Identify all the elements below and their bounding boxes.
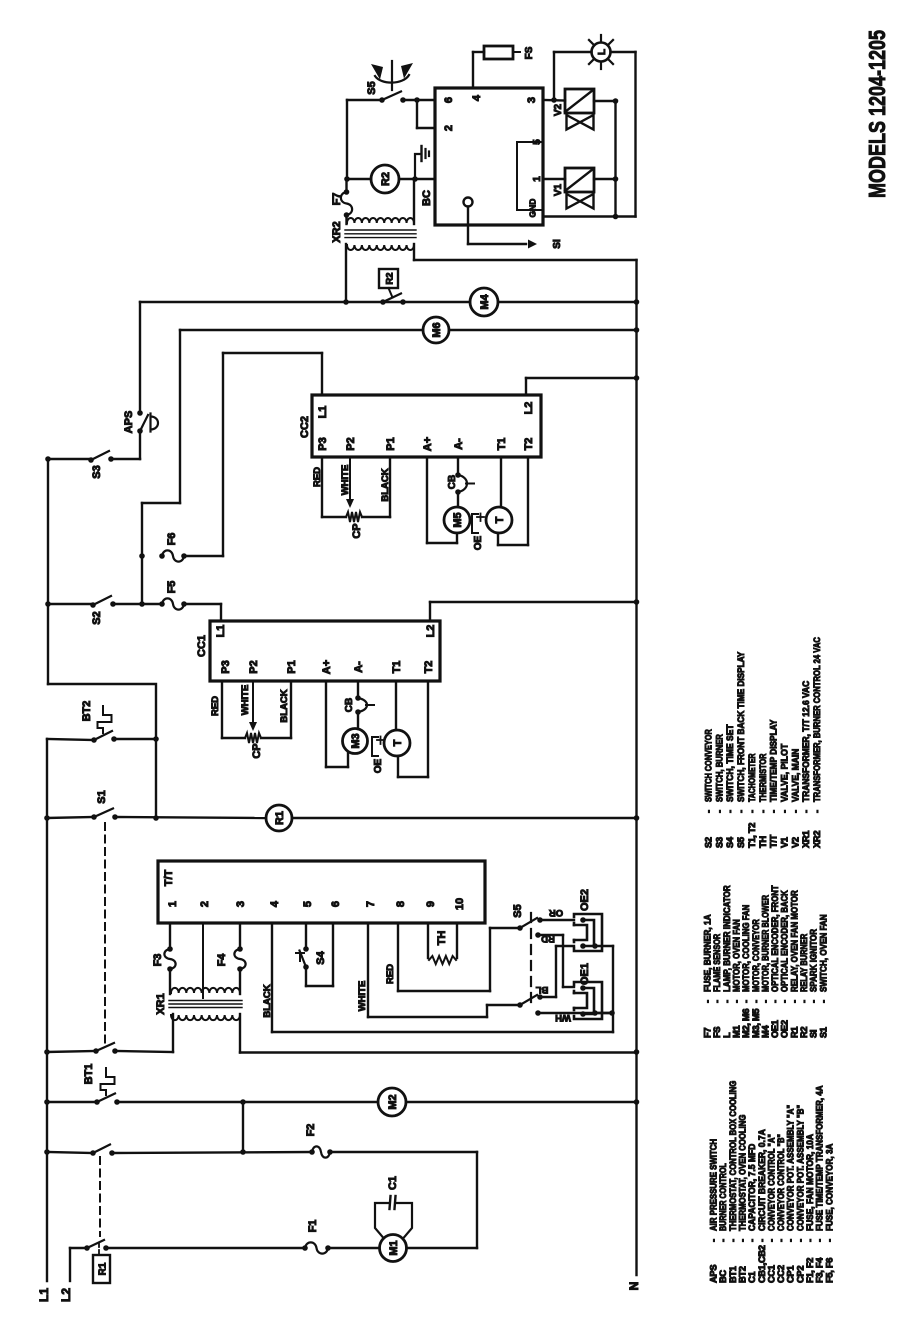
svg-text:OE1: OE1 <box>579 963 591 985</box>
svg-text:V1: V1 <box>779 837 789 848</box>
svg-text:-: - <box>780 1000 790 1003</box>
svg-text:MOTOR, BURNER BLOWER: MOTOR, BURNER BLOWER <box>760 895 770 992</box>
svg-text:RELAY BURNER: RELAY BURNER <box>799 934 809 992</box>
svg-text:-: - <box>766 1239 776 1242</box>
svg-text:BURNER CONTROL: BURNER CONTROL <box>718 1163 728 1231</box>
svg-text:F6: F6 <box>166 533 178 546</box>
svg-text:8: 8 <box>395 901 407 907</box>
svg-text:P2: P2 <box>248 660 260 673</box>
svg-text:6: 6 <box>443 97 455 103</box>
svg-text:S5: S5 <box>512 904 524 917</box>
svg-text:-: - <box>779 810 789 813</box>
svg-text:-: - <box>757 1239 767 1242</box>
svg-text:BT1: BT1 <box>83 1064 95 1085</box>
svg-text:M6: M6 <box>431 322 443 337</box>
svg-text:-: - <box>805 1239 815 1242</box>
svg-text:FUSE, BURNER, 1A: FUSE, BURNER, 1A <box>703 914 713 992</box>
svg-text:CONVEYOR CONTROL "A": CONVEYOR CONTROL "A" <box>766 1134 776 1231</box>
svg-text:S5: S5 <box>366 81 378 94</box>
svg-text:WHITE: WHITE <box>340 465 351 496</box>
svg-text:T: T <box>494 516 506 523</box>
svg-text:-: - <box>709 1239 719 1242</box>
svg-text:3: 3 <box>235 901 247 907</box>
svg-text:CP: CP <box>251 743 263 758</box>
svg-text:2: 2 <box>443 125 455 131</box>
svg-text:P2: P2 <box>345 437 357 450</box>
svg-text:SWITCH, OVEN FAN: SWITCH, OVEN FAN <box>818 914 828 992</box>
svg-text:P3: P3 <box>220 660 232 673</box>
svg-text:5: 5 <box>302 901 314 907</box>
svg-text:-: - <box>704 810 714 813</box>
svg-text:THERMOSTAT, OVEN COOLING: THERMOSTAT, OVEN COOLING <box>737 1115 747 1231</box>
svg-text:TIME/TEMP DISPLAY: TIME/TEMP DISPLAY <box>769 719 779 802</box>
svg-text:WH: WH <box>555 1012 571 1023</box>
svg-text:-: - <box>722 1000 732 1003</box>
svg-text:AIR PRESSURE SWITCH: AIR PRESSURE SWITCH <box>709 1139 719 1231</box>
svg-text:APS: APS <box>709 1265 719 1283</box>
svg-text:L2: L2 <box>59 1288 73 1302</box>
svg-text:-: - <box>718 1239 728 1242</box>
svg-text:MOTOR, CONVEYOR: MOTOR, CONVEYOR <box>751 919 761 992</box>
svg-text:4: 4 <box>269 900 281 907</box>
svg-text:MOTOR, OVEN FAN: MOTOR, OVEN FAN <box>731 919 741 992</box>
svg-text:R1: R1 <box>789 1027 799 1038</box>
svg-text:R1: R1 <box>274 811 286 825</box>
svg-text:XR2: XR2 <box>812 831 822 848</box>
svg-text:-: - <box>799 1000 809 1003</box>
svg-text:BLACK: BLACK <box>279 689 290 722</box>
svg-text:L: L <box>722 1032 732 1038</box>
svg-text:TH: TH <box>758 836 768 848</box>
svg-text:M1: M1 <box>388 1240 400 1255</box>
svg-text:S4: S4 <box>315 950 327 964</box>
svg-text:FUSE, CONVEYOR, 3A: FUSE, CONVEYOR, 3A <box>824 1143 834 1231</box>
svg-text:CC2: CC2 <box>299 416 311 438</box>
svg-text:LAMP, BURNER INDICATOR: LAMP, BURNER INDICATOR <box>722 885 732 992</box>
svg-text:S3: S3 <box>714 837 724 848</box>
svg-text:-: - <box>728 1239 738 1242</box>
svg-text:-: - <box>736 810 746 813</box>
svg-text:-: - <box>812 810 822 813</box>
svg-text:BT2: BT2 <box>737 1266 747 1283</box>
svg-text:-: - <box>714 810 724 813</box>
svg-text:BLACK: BLACK <box>262 984 273 1017</box>
svg-text:F2: F2 <box>305 1124 317 1137</box>
svg-text:M2, M6: M2, M6 <box>741 1009 751 1038</box>
svg-text:A+: A+ <box>321 660 333 674</box>
svg-text:SI: SI <box>552 239 563 249</box>
svg-text:OE1: OE1 <box>770 1020 780 1038</box>
svg-text:SWITCH CONVEYOR: SWITCH CONVEYOR <box>704 729 714 802</box>
svg-text:WHITE: WHITE <box>357 981 368 1012</box>
svg-text:F1, F2: F1, F2 <box>805 1258 815 1283</box>
svg-text:C1: C1 <box>747 1272 757 1283</box>
svg-text:TACHOMETER: TACHOMETER <box>747 753 757 802</box>
svg-text:FLAME SENSOR: FLAME SENSOR <box>712 934 722 992</box>
svg-text:F7: F7 <box>331 193 343 206</box>
svg-text:-: - <box>789 1000 799 1003</box>
svg-text:T/T: T/T <box>163 869 175 886</box>
svg-text:OPTICAL ENCODER, FRONT: OPTICAL ENCODER, FRONT <box>770 885 780 992</box>
svg-text:CP1: CP1 <box>786 1266 796 1283</box>
svg-text:-: - <box>801 810 811 813</box>
svg-text:P3: P3 <box>317 437 329 450</box>
svg-text:SWITCH, TIME SET: SWITCH, TIME SET <box>725 724 735 802</box>
svg-text:F7: F7 <box>703 1028 713 1038</box>
svg-text:F5, F6: F5, F6 <box>824 1258 834 1283</box>
svg-text:TH: TH <box>436 931 448 946</box>
svg-text:S2: S2 <box>91 611 103 624</box>
svg-text:FS: FS <box>712 1027 722 1038</box>
svg-text:THERMISTOR: THERMISTOR <box>758 753 768 802</box>
svg-text:A-: A- <box>453 438 465 450</box>
svg-text:L2: L2 <box>425 625 437 638</box>
svg-text:OE2: OE2 <box>579 889 591 911</box>
svg-text:-: - <box>809 1000 819 1003</box>
svg-text:F5: F5 <box>166 581 178 594</box>
svg-text:L1: L1 <box>317 406 329 419</box>
svg-text:T/T: T/T <box>769 834 779 848</box>
svg-text:SI: SI <box>809 1030 819 1038</box>
svg-text:-: - <box>758 810 768 813</box>
svg-text:CP: CP <box>351 523 363 538</box>
svg-text:F4: F4 <box>216 953 228 967</box>
svg-text:SWITCH, BURNER: SWITCH, BURNER <box>714 734 724 802</box>
svg-text:S3: S3 <box>91 465 103 478</box>
svg-text:M5: M5 <box>452 512 464 527</box>
svg-text:RELAY, OVEN FAN MOTOR: RELAY, OVEN FAN MOTOR <box>789 890 799 992</box>
svg-text:1: 1 <box>167 901 179 907</box>
svg-text:L: L <box>597 49 608 55</box>
svg-text:SWITCH, FRONT BACK TIME DISPLA: SWITCH, FRONT BACK TIME DISPLAY <box>736 651 746 802</box>
svg-text:MOTOR, COOLING FAN: MOTOR, COOLING FAN <box>741 904 751 992</box>
svg-text:-: - <box>725 810 735 813</box>
svg-text:-: - <box>795 1239 805 1242</box>
svg-text:R1: R1 <box>97 1262 108 1275</box>
svg-text:R2: R2 <box>799 1027 809 1038</box>
svg-text:CC1: CC1 <box>196 635 208 657</box>
svg-text:FUSE, FAN MOTOR, 10A: FUSE, FAN MOTOR, 10A <box>805 1134 815 1231</box>
svg-text:WHITE: WHITE <box>240 685 251 716</box>
svg-text:S4: S4 <box>725 836 735 848</box>
svg-text:L1: L1 <box>37 1288 51 1302</box>
svg-text:T: T <box>392 739 404 746</box>
svg-text:F3, F4: F3, F4 <box>815 1257 825 1283</box>
svg-text:T1: T1 <box>391 661 403 674</box>
svg-text:XR1: XR1 <box>155 993 167 1014</box>
svg-text:-: - <box>790 810 800 813</box>
svg-text:XR2: XR2 <box>331 221 343 242</box>
svg-text:BC: BC <box>421 190 433 206</box>
svg-text:V2: V2 <box>790 837 800 848</box>
svg-text:3: 3 <box>526 97 538 103</box>
svg-text:S1: S1 <box>818 1027 828 1038</box>
svg-text:-: - <box>818 1000 828 1003</box>
svg-text:9: 9 <box>425 901 437 907</box>
svg-text:-: - <box>786 1239 796 1242</box>
svg-text:CC2: CC2 <box>776 1265 786 1283</box>
svg-text:SPARK IGNITOR: SPARK IGNITOR <box>809 929 819 992</box>
svg-text:-: - <box>703 1000 713 1003</box>
svg-text:F1: F1 <box>307 1220 319 1233</box>
svg-text:OE: OE <box>473 535 484 550</box>
svg-text:RD: RD <box>541 933 555 944</box>
svg-text:C1: C1 <box>387 1176 399 1190</box>
svg-text:V2: V2 <box>553 103 564 116</box>
svg-text:BL: BL <box>535 984 548 995</box>
svg-text:M4: M4 <box>760 1025 770 1038</box>
svg-text:M3, M5: M3, M5 <box>751 1009 761 1038</box>
svg-text:-: - <box>737 1239 747 1242</box>
svg-text:CB: CB <box>447 475 458 489</box>
svg-text:10: 10 <box>454 898 466 910</box>
svg-text:VALVE, PILOT: VALVE, PILOT <box>779 744 789 802</box>
svg-text:L1: L1 <box>215 625 227 638</box>
svg-text:2: 2 <box>199 901 211 907</box>
svg-text:T1: T1 <box>496 438 508 451</box>
svg-text:7: 7 <box>365 901 377 907</box>
svg-text:CIRCUIT BREAKER, 0.7A: CIRCUIT BREAKER, 0.7A <box>757 1129 767 1231</box>
svg-text:OPTICAL ENCODER, BACK: OPTICAL ENCODER, BACK <box>780 890 790 992</box>
svg-text:THERMOSTAT, CONTROL BOX COOLIN: THERMOSTAT, CONTROL BOX COOLING <box>728 1081 738 1231</box>
svg-text:TRANSFORMER, T/T 12.6 VAC: TRANSFORMER, T/T 12.6 VAC <box>801 681 811 802</box>
svg-text:OE: OE <box>373 758 384 773</box>
svg-text:P1: P1 <box>286 660 298 673</box>
svg-text:T2: T2 <box>523 438 535 451</box>
svg-text:A-: A- <box>353 661 365 673</box>
svg-text:VALVE, MAIN: VALVE, MAIN <box>790 748 800 802</box>
svg-text:CP2: CP2 <box>795 1266 805 1283</box>
svg-text:R2: R2 <box>380 172 392 186</box>
svg-text:-: - <box>769 810 779 813</box>
svg-text:CB1,CB2: CB1,CB2 <box>757 1245 767 1283</box>
svg-text:CAPACITOR, 7.5 MFD: CAPACITOR, 7.5 MFD <box>747 1143 757 1231</box>
svg-text:OE2: OE2 <box>780 1020 790 1038</box>
svg-text:-: - <box>747 810 757 813</box>
svg-text:T2: T2 <box>423 661 435 674</box>
svg-text:6: 6 <box>330 901 342 907</box>
svg-text:CONVEYOR POT. ASSEMBLY "B": CONVEYOR POT. ASSEMBLY "B" <box>795 1105 805 1231</box>
svg-text:GND: GND <box>527 199 537 218</box>
svg-text:CC1: CC1 <box>766 1265 776 1283</box>
svg-text:RED: RED <box>210 696 221 716</box>
svg-text:-: - <box>741 1000 751 1003</box>
svg-text:S5: S5 <box>736 837 746 848</box>
svg-text:BLACK: BLACK <box>380 468 391 501</box>
svg-text:4: 4 <box>471 94 483 101</box>
svg-text:BC: BC <box>718 1270 728 1283</box>
svg-text:-: - <box>751 1000 761 1003</box>
svg-text:FUSE TIME/TEMP TRANSFORMER, 4A: FUSE TIME/TEMP TRANSFORMER, 4A <box>815 1085 825 1231</box>
svg-text:-: - <box>815 1239 825 1242</box>
svg-text:V1: V1 <box>553 183 564 196</box>
svg-text:FS: FS <box>524 46 535 59</box>
svg-text:M4: M4 <box>479 293 491 309</box>
svg-text:BT2: BT2 <box>81 701 93 722</box>
svg-text:APS: APS <box>123 411 135 434</box>
svg-text:-: - <box>770 1000 780 1003</box>
svg-text:TRANSFORMER, BURNER CONTROL 24: TRANSFORMER, BURNER CONTROL 24 VAC <box>812 637 822 802</box>
svg-text:F3: F3 <box>152 954 164 967</box>
svg-text:MODELS 1204-1205: MODELS 1204-1205 <box>864 30 890 198</box>
svg-text:-: - <box>824 1239 834 1242</box>
svg-text:OR: OR <box>549 907 563 918</box>
svg-text:S1: S1 <box>96 790 108 803</box>
svg-text:P1: P1 <box>385 437 397 450</box>
svg-text:CONVEYOR CONTROL "B": CONVEYOR CONTROL "B" <box>776 1134 786 1231</box>
svg-text:A+: A+ <box>422 437 434 451</box>
svg-text:XR1: XR1 <box>801 831 811 848</box>
svg-text:-: - <box>712 1000 722 1003</box>
svg-text:RED: RED <box>312 467 323 487</box>
svg-text:1: 1 <box>532 176 543 182</box>
svg-text:RED: RED <box>385 964 396 984</box>
svg-text:R2: R2 <box>384 272 395 284</box>
svg-text:M3: M3 <box>350 733 362 748</box>
svg-text:CB: CB <box>344 698 355 712</box>
svg-text:-: - <box>747 1239 757 1242</box>
svg-text:-: - <box>731 1000 741 1003</box>
svg-text:BT1: BT1 <box>728 1266 738 1283</box>
svg-text:S2: S2 <box>704 837 714 848</box>
svg-text:L2: L2 <box>523 402 535 415</box>
svg-text:N: N <box>627 1282 641 1291</box>
svg-text:M2: M2 <box>387 1094 399 1109</box>
svg-text:T1, T2: T1, T2 <box>747 823 757 848</box>
svg-text:M1: M1 <box>731 1026 741 1038</box>
svg-text:CONVEYOR POT. ASSEMBLY "A": CONVEYOR POT. ASSEMBLY "A" <box>786 1105 796 1231</box>
svg-text:-: - <box>760 1000 770 1003</box>
svg-text:-: - <box>776 1239 786 1242</box>
